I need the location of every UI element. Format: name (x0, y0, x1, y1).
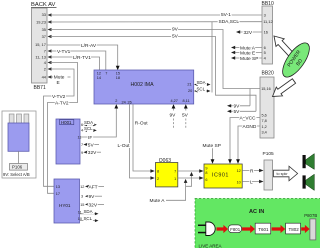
wire 9V stub at HY01 pin3 (85, 194, 102, 200)
svg-text:7: 7 (81, 143, 83, 147)
wire V-TV2 : BB71 pin2 to HY01 pin13 (44, 69, 75, 186)
svg-text:24: 24 (122, 100, 126, 104)
svg-text:AFT: AFT (89, 184, 98, 190)
AC IN live area (195, 199, 320, 248)
bus stub SCL at H002 pin20 (194, 86, 211, 92)
wire Q063 pin7 to IC901 pin8 (178, 169, 204, 173)
svg-text:12: 12 (97, 72, 101, 76)
svg-text:4,27: 4,27 (171, 99, 178, 103)
svg-text:9V: Select A/B: 9V: Select A/B (3, 172, 30, 177)
svg-text:5V: 5V (182, 112, 189, 118)
connector BB71 (BACK AV) (31, 2, 57, 91)
wire 5V : BB71 pin37 to BB20 (51, 34, 257, 112)
speaker top (303, 154, 315, 170)
wire 9V stub under H002 pin4,27 (170, 104, 177, 128)
bus stub SDA at H001 pin6 (83, 120, 96, 126)
svg-text:Mute E: Mute E (240, 50, 255, 56)
svg-text:5V-1: 5V-1 (221, 12, 231, 18)
wire A_VCC : BB20 to IC901 (228, 116, 260, 164)
wire 5V branch stub near BB20 (227, 109, 256, 115)
svg-text:AGND: AGND (243, 124, 257, 130)
svg-text:5V: 5V (172, 34, 179, 40)
svg-text:IC901: IC901 (212, 172, 229, 178)
switch Q063 (156, 158, 178, 187)
net Mute A stub at BB10 pin6 (231, 45, 262, 51)
wire 32V stub at H001 pin9 (83, 150, 101, 156)
svg-text:19,23: 19,23 (36, 20, 46, 25)
block arrow POWER BD to BB10 (274, 36, 297, 61)
svg-text:3,4: 3,4 (262, 131, 267, 135)
svg-text:16: 16 (264, 29, 268, 34)
svg-text:11,12: 11,12 (263, 19, 272, 24)
svg-text:L/R-TV1: L/R-TV1 (73, 55, 91, 61)
svg-text:12: 12 (237, 169, 241, 173)
tuner HY01 (54, 179, 84, 223)
wire V-TV1 : BB71 pin7 to H002 pin7 (51, 49, 106, 70)
wire L : IC901 pin10 to P105 (242, 179, 263, 185)
svg-text:33: 33 (42, 12, 46, 17)
wire 5V stub under H002 pin8,11 (182, 104, 189, 128)
wire 32V stub at HY01 pin15 (85, 202, 104, 208)
svg-text:BB20: BB20 (262, 71, 274, 77)
svg-text:SDA,SCL: SDA,SCL (219, 19, 240, 25)
svg-text:Mute SP: Mute SP (203, 143, 221, 149)
svg-text:L-Out: L-Out (118, 143, 131, 149)
svg-text:T802: T802 (289, 227, 300, 232)
net label Mute E at BB71 pin44 (51, 75, 71, 86)
svg-text:10: 10 (237, 181, 241, 185)
svg-text:32V: 32V (244, 30, 253, 36)
svg-text:1: 1 (174, 177, 176, 181)
svg-text:T601: T601 (258, 227, 269, 232)
svg-text:2: 2 (44, 67, 46, 72)
svg-text:SCL: SCL (84, 216, 93, 221)
svg-text:14: 14 (97, 76, 101, 80)
wire SDA,SCL : BB71 pin19,23 to BB10 pin11,12 (51, 19, 263, 25)
wire 9V branch stub near BB20 (227, 89, 250, 110)
svg-text:Mute A: Mute A (240, 45, 256, 51)
svg-text:15: 15 (80, 203, 84, 207)
wire 5V stub at H001 pin7 (83, 142, 99, 148)
wire A-TV2 : BB71 pin4 to HY01 pin17 (48, 63, 78, 194)
svg-text:to spkr: to spkr (277, 172, 289, 176)
svg-text:L: L (250, 179, 253, 185)
svg-text:P807B: P807B (304, 213, 317, 218)
svg-text:32V: 32V (89, 202, 98, 208)
svg-text:V-TV2: V-TV2 (52, 94, 66, 100)
red arrow plug to F801 (217, 225, 229, 233)
block arrow POWER BD to BB20 (273, 79, 296, 97)
wire R-Out : H002 pin26 to Q063 pin8 (133, 104, 155, 173)
svg-text:L/R-AV: L/R-AV (81, 43, 97, 49)
svg-text:3: 3 (264, 12, 266, 17)
wire L/R-TV1 : BB71 pin11,13 to H002 pin12/14 (51, 55, 100, 70)
svg-text:A-TV2: A-TV2 (55, 100, 69, 106)
svg-text:8,11: 8,11 (183, 99, 190, 103)
connector P807B (304, 213, 317, 240)
svg-text:9V: 9V (234, 104, 241, 110)
wire Q063 pin1 to IC901 pin6 (178, 176, 204, 180)
wire R : IC901 pin12 to P105 (242, 168, 263, 174)
svg-text:12: 12 (80, 185, 84, 189)
IC H002 IMA (jungle) (94, 70, 194, 104)
svg-text:SCL: SCL (197, 86, 206, 91)
svg-text:2: 2 (157, 177, 159, 181)
wire L/R-AV : BB71 pin15,17 to H002 pin15/18 (47, 43, 120, 70)
svg-text:R-Out: R-Out (135, 120, 148, 126)
wire AFT stub at HY01 pin12 (85, 184, 104, 190)
svg-text:R: R (250, 168, 254, 174)
svg-text:7: 7 (44, 49, 46, 54)
svg-text:Mute SP: Mute SP (240, 56, 258, 62)
svg-text:35: 35 (42, 27, 46, 32)
AC plug icon (198, 222, 215, 236)
fuse F801 (228, 225, 241, 233)
wire SDA,SCL bus drop to H002 (211, 22, 213, 93)
bus stub SCL at H001 pin4 (83, 126, 96, 132)
net Mute SP stub at BB10 pin4 (231, 56, 262, 62)
svg-text:5V: 5V (88, 142, 95, 148)
bus stub SDA at H002 pin21 (194, 80, 211, 86)
svg-text:32V: 32V (88, 150, 97, 156)
svg-text:3: 3 (81, 195, 83, 199)
wire IF : H001 pin11 to H002 pin2 (80, 104, 118, 141)
wire 9V : BB71 pin35 to BB20 pin15,16 (51, 27, 261, 89)
svg-text:11, 13: 11, 13 (35, 55, 46, 60)
svg-text:37: 37 (42, 34, 46, 39)
svg-text:AC IN: AC IN (249, 209, 264, 215)
POWER BD bubble (278, 39, 315, 81)
connector BB20 (260, 71, 274, 138)
svg-text:15: 15 (116, 72, 120, 76)
svg-text:8: 8 (157, 169, 159, 173)
svg-text:13: 13 (56, 185, 60, 189)
svg-text:21: 21 (187, 83, 191, 87)
wire AGND : BB20 to IC901 (236, 124, 260, 164)
svg-text:17: 17 (56, 192, 60, 196)
svg-text:8: 8 (205, 171, 207, 175)
svg-text:5: 5 (264, 50, 266, 55)
connector P105 (263, 151, 275, 190)
svg-text:BB71: BB71 (34, 85, 46, 91)
svg-text:15, 17: 15, 17 (35, 42, 46, 47)
svg-text:SDA: SDA (84, 120, 93, 125)
svg-text:9V: 9V (89, 194, 96, 200)
svg-text:7: 7 (174, 169, 176, 173)
svg-text:6: 6 (205, 178, 207, 182)
svg-text:A_VCC: A_VCC (240, 116, 257, 122)
svg-text:Mute: Mute (54, 75, 65, 81)
svg-text:7: 7 (105, 72, 107, 76)
svg-text:P105: P105 (263, 151, 275, 157)
net Mute E stub at BB10 pin5 (231, 50, 262, 56)
wire 32V stub at BB10 pin16 (236, 30, 262, 36)
net Mute SP into IC901 (203, 143, 221, 164)
svg-text:SCL: SCL (84, 126, 93, 131)
transformer T601 (255, 223, 271, 234)
svg-text:P106: P106 (12, 165, 23, 170)
svg-text:7,8: 7,8 (262, 119, 267, 123)
antenna selector P106 (2, 111, 36, 178)
svg-text:5,6: 5,6 (262, 114, 267, 118)
red arrow T601 to T802 (272, 225, 286, 233)
bus stub SDA at HY01 pin11 (80, 209, 99, 215)
bus stub SCL at HY01 pin10 (80, 216, 99, 222)
svg-text:9: 9 (205, 167, 207, 171)
audio amp IC901 (204, 164, 242, 188)
svg-text:18: 18 (116, 76, 120, 80)
connector BB10 (262, 1, 274, 64)
svg-text:SDA: SDA (84, 209, 93, 214)
svg-text:HY01: HY01 (59, 203, 71, 208)
svg-text:4: 4 (81, 129, 83, 133)
svg-text:1,2: 1,2 (262, 125, 267, 129)
net Mute A injection (150, 172, 194, 204)
svg-text:9V: 9V (170, 112, 177, 118)
wire L-Out : H002 pin24 to Q063 pin2 (118, 104, 155, 180)
svg-text:H002 IMA: H002 IMA (131, 82, 155, 88)
svg-text:5V: 5V (234, 109, 241, 115)
svg-text:H001: H001 (61, 120, 72, 125)
speaker bottom (303, 174, 315, 190)
transformer T802 (286, 223, 301, 234)
block arrow to speakers (274, 166, 298, 181)
svg-text:IF: IF (88, 135, 92, 141)
wire 5V-1 : BB71 pin33 to BB10 pin3 (51, 12, 263, 18)
svg-text:SDA: SDA (197, 80, 206, 85)
svg-text:9V: 9V (172, 27, 179, 33)
svg-text:20: 20 (188, 89, 192, 93)
svg-text:26: 26 (128, 100, 132, 104)
svg-text:15,16: 15,16 (261, 87, 271, 91)
svg-text:F801: F801 (230, 227, 240, 232)
svg-text:6: 6 (81, 123, 83, 127)
svg-text:LIVE AREA: LIVE AREA (199, 243, 222, 248)
red arrow F801 to T601 (242, 225, 255, 233)
svg-text:2: 2 (115, 99, 117, 103)
red arrow T802 to P807B (301, 225, 309, 233)
svg-text:V-TV1: V-TV1 (57, 49, 71, 55)
svg-text:E: E (57, 80, 60, 86)
svg-text:9: 9 (81, 151, 83, 155)
tuner H001 (56, 119, 83, 164)
svg-text:Mute A: Mute A (150, 198, 166, 204)
